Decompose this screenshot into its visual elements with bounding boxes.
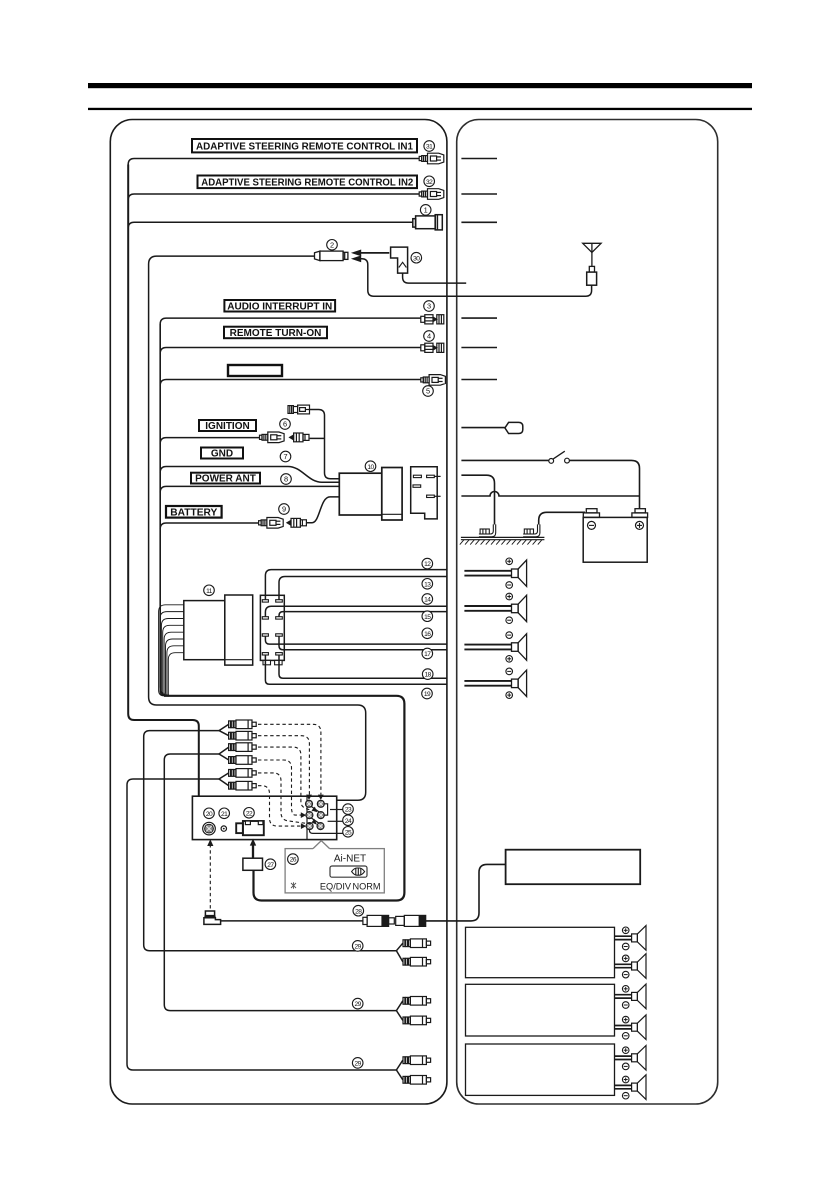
svg-text:5: 5 <box>426 387 430 396</box>
svg-text:REMOTE TURN-ON: REMOTE TURN-ON <box>230 328 322 339</box>
svg-text:24: 24 <box>345 818 352 825</box>
svg-text:21: 21 <box>221 811 228 818</box>
svg-text:19: 19 <box>424 691 431 698</box>
svg-text:AUDIO INTERRUPT IN: AUDIO INTERRUPT IN <box>227 301 332 312</box>
svg-text:8: 8 <box>284 475 288 484</box>
svg-text:32: 32 <box>426 179 433 186</box>
svg-text:POWER ANT: POWER ANT <box>195 474 256 485</box>
svg-text:IGNITION: IGNITION <box>205 421 249 432</box>
svg-text:29: 29 <box>355 1061 362 1068</box>
svg-text:13: 13 <box>424 581 431 588</box>
svg-text:NORM: NORM <box>352 882 380 892</box>
svg-text:29: 29 <box>355 944 362 951</box>
svg-text:EQ/DIV: EQ/DIV <box>320 882 352 892</box>
svg-text:16: 16 <box>424 631 431 638</box>
svg-text:9: 9 <box>282 505 286 514</box>
svg-text:28: 28 <box>355 908 362 915</box>
svg-text:12: 12 <box>424 561 431 568</box>
svg-text:17: 17 <box>424 651 431 658</box>
svg-text:22: 22 <box>246 810 253 817</box>
svg-text:GND: GND <box>211 449 233 460</box>
svg-text:26: 26 <box>290 857 297 864</box>
svg-text:29: 29 <box>355 1001 362 1008</box>
svg-text:3: 3 <box>427 302 431 311</box>
svg-text:11: 11 <box>206 588 213 595</box>
svg-text:15: 15 <box>424 614 431 621</box>
svg-text:23: 23 <box>345 807 352 814</box>
svg-text:ADAPTIVE STEERING REMOTE CONTR: ADAPTIVE STEERING REMOTE CONTROL IN2 <box>201 177 413 188</box>
svg-text:20: 20 <box>206 811 213 818</box>
svg-text:25: 25 <box>345 829 352 836</box>
svg-text:18: 18 <box>425 672 432 679</box>
svg-text:10: 10 <box>367 464 374 471</box>
svg-text:6: 6 <box>283 420 287 429</box>
svg-text:BATTERY: BATTERY <box>170 507 217 518</box>
svg-text:14: 14 <box>424 597 431 604</box>
svg-text:7: 7 <box>283 452 287 461</box>
svg-text:ADAPTIVE STEERING REMOTE CONTR: ADAPTIVE STEERING REMOTE CONTROL IN1 <box>196 141 413 152</box>
svg-text:27: 27 <box>267 862 274 869</box>
svg-text:1: 1 <box>424 206 428 215</box>
svg-text:30: 30 <box>413 255 420 262</box>
svg-text:Ai-NET: Ai-NET <box>334 854 366 865</box>
svg-text:4: 4 <box>427 332 431 341</box>
svg-text:31: 31 <box>426 144 433 151</box>
svg-text:2: 2 <box>330 240 334 249</box>
